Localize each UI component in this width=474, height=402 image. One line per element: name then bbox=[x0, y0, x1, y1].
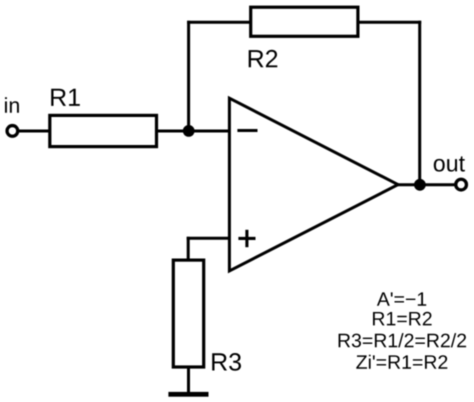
wire: top feedback left segment bbox=[187, 21, 252, 24]
output terminal circle (out) bbox=[456, 179, 467, 190]
equation R3=R1/2=R2/2 bbox=[339, 333, 467, 347]
input terminal circle (in) bbox=[7, 126, 18, 137]
resistor R1 bbox=[50, 115, 157, 146]
label R3 bbox=[212, 353, 241, 371]
wire: R3 to ground bbox=[187, 367, 190, 393]
wire: feedback down to output node bbox=[418, 21, 421, 185]
label out bbox=[434, 156, 465, 171]
resistor R3 bbox=[173, 260, 203, 367]
op-amp U1 triangle bbox=[229, 98, 398, 271]
wire: non-inverting input down to R3 bbox=[187, 237, 190, 262]
label in bbox=[5, 97, 19, 113]
wire: R1 to op-amp inverting input bbox=[157, 130, 230, 133]
wire: junction up to feedback line bbox=[187, 21, 190, 131]
equation Zi'=R1=R2 bbox=[356, 355, 447, 369]
label R2 bbox=[249, 50, 278, 68]
wire: top feedback right segment bbox=[358, 21, 421, 24]
op-amp minus input symbol bbox=[237, 129, 257, 132]
node: output junction bbox=[414, 179, 426, 191]
ground bbox=[168, 392, 208, 397]
wire: in terminal to R1 bbox=[18, 130, 51, 133]
resistor R2 bbox=[251, 7, 358, 36]
wire: op-amp output to out terminal bbox=[396, 183, 456, 186]
equation R1=R2 bbox=[373, 312, 432, 326]
label R1 bbox=[51, 89, 80, 106]
op-amp plus input symbol bbox=[238, 230, 255, 247]
node: inverting input junction bbox=[183, 125, 195, 137]
wire: non-inverting input horizontal bbox=[187, 237, 230, 240]
equation A'=-1 bbox=[377, 292, 426, 305]
